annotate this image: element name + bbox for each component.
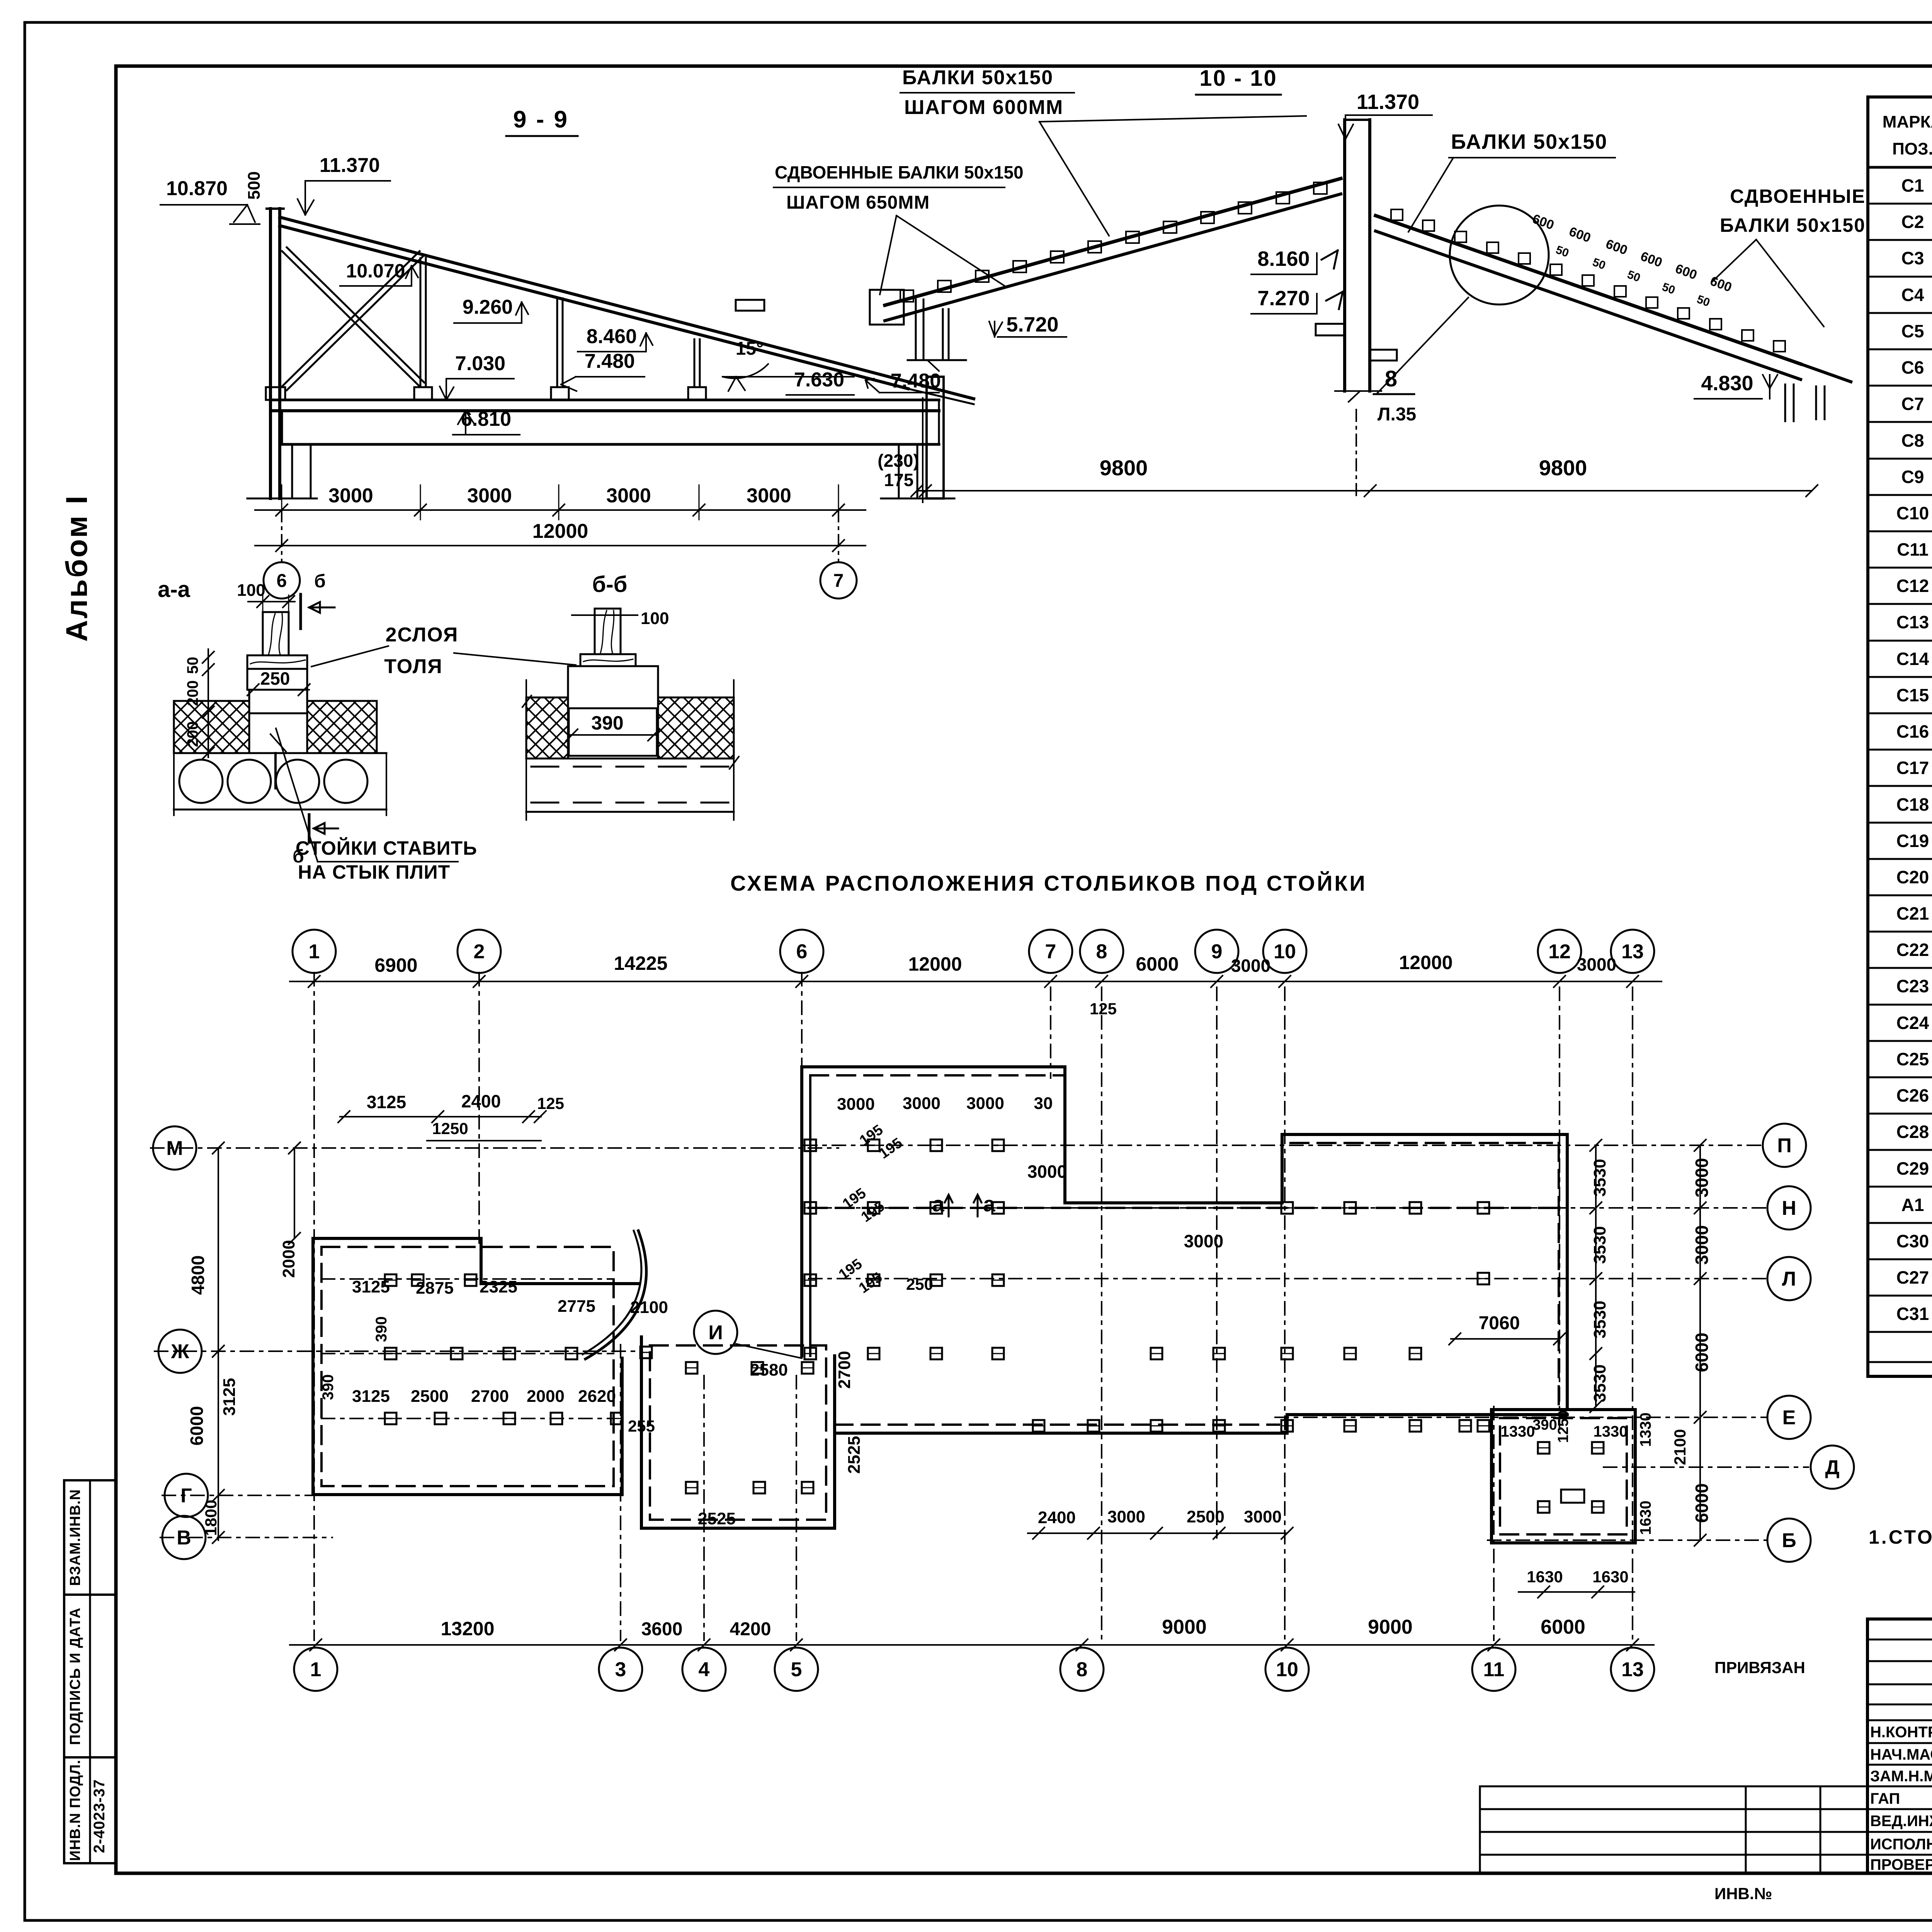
svg-text:12000: 12000 bbox=[1399, 952, 1452, 973]
svg-text:СХЕМА РАСПОЛОЖЕНИЯ СТОЛБИКОВ: СХЕМА РАСПОЛОЖЕНИЯ СТОЛБИКОВ ПОД СТОЙКИ bbox=[730, 871, 1367, 895]
svg-text:3600: 3600 bbox=[641, 1619, 683, 1639]
svg-text:3530: 3530 bbox=[1590, 1159, 1609, 1197]
svg-text:100: 100 bbox=[237, 581, 265, 600]
svg-text:1800: 1800 bbox=[202, 1500, 220, 1536]
svg-text:С21: С21 bbox=[1896, 903, 1929, 923]
svg-text:11: 11 bbox=[1483, 1658, 1505, 1681]
svg-text:3000: 3000 bbox=[467, 485, 512, 507]
svg-text:6000: 6000 bbox=[1136, 953, 1179, 975]
svg-text:3: 3 bbox=[615, 1658, 626, 1681]
svg-text:100: 100 bbox=[641, 609, 669, 628]
svg-text:Н.КОНТР.: Н.КОНТР. bbox=[1870, 1724, 1932, 1741]
svg-text:С6: С6 bbox=[1901, 357, 1924, 378]
svg-text:П: П bbox=[1777, 1134, 1791, 1157]
svg-text:9.260: 9.260 bbox=[463, 296, 513, 318]
svg-text:2400: 2400 bbox=[461, 1091, 501, 1111]
svg-text:11.370: 11.370 bbox=[1357, 90, 1419, 114]
svg-text:СДВОЕННЫЕ: СДВОЕННЫЕ bbox=[1730, 185, 1866, 207]
svg-text:С12: С12 bbox=[1896, 576, 1929, 596]
svg-text:255: 255 bbox=[628, 1417, 655, 1435]
svg-text:Г: Г bbox=[180, 1485, 192, 1507]
svg-text:10.070: 10.070 bbox=[346, 260, 405, 282]
svg-text:С19: С19 bbox=[1896, 831, 1929, 851]
svg-text:ПРИВЯЗАН: ПРИВЯЗАН bbox=[1714, 1658, 1805, 1677]
svg-text:С22: С22 bbox=[1896, 940, 1929, 960]
svg-text:ВЗАМ.ИНВ.N: ВЗАМ.ИНВ.N bbox=[67, 1489, 83, 1586]
svg-text:С14: С14 bbox=[1896, 649, 1929, 669]
svg-text:БАЛКИ 50х150: БАЛКИ 50х150 bbox=[1720, 214, 1866, 236]
svg-text:7: 7 bbox=[1045, 940, 1056, 963]
svg-text:3125: 3125 bbox=[352, 1277, 390, 1296]
svg-text:4800: 4800 bbox=[188, 1255, 208, 1295]
svg-text:2СЛОЯ: 2СЛОЯ bbox=[386, 624, 459, 646]
svg-text:ИНВ.N ПОДЛ.: ИНВ.N ПОДЛ. bbox=[67, 1760, 83, 1861]
svg-text:9000: 9000 bbox=[1368, 1616, 1413, 1638]
svg-text:7.030: 7.030 bbox=[455, 352, 505, 375]
svg-text:9 - 9: 9 - 9 bbox=[513, 106, 569, 133]
svg-text:500: 500 bbox=[245, 171, 264, 199]
svg-text:СДВОЕННЫЕ БАЛКИ 50х150: СДВОЕННЫЕ БАЛКИ 50х150 bbox=[775, 162, 1024, 182]
svg-text:50: 50 bbox=[184, 657, 201, 674]
svg-text:2: 2 bbox=[474, 940, 485, 963]
svg-text:С20: С20 bbox=[1896, 867, 1929, 887]
svg-text:7.630: 7.630 bbox=[794, 369, 844, 391]
svg-text:1250: 1250 bbox=[432, 1119, 468, 1138]
svg-text:8.160: 8.160 bbox=[1257, 247, 1310, 270]
svg-text:3000: 3000 bbox=[903, 1094, 940, 1113]
svg-text:9: 9 bbox=[1211, 940, 1223, 963]
svg-text:2620: 2620 bbox=[578, 1387, 616, 1406]
svg-text:200: 200 bbox=[184, 721, 201, 747]
svg-text:3000: 3000 bbox=[606, 485, 651, 507]
svg-text:10 - 10: 10 - 10 bbox=[1199, 66, 1277, 91]
svg-text:4: 4 bbox=[699, 1658, 710, 1681]
svg-text:б-б: б-б bbox=[592, 572, 628, 597]
svg-text:3000: 3000 bbox=[1107, 1507, 1145, 1526]
svg-text:ИСПОЛН.: ИСПОЛН. bbox=[1870, 1836, 1932, 1853]
svg-text:3000: 3000 bbox=[747, 485, 791, 507]
svg-text:6000: 6000 bbox=[1692, 1333, 1712, 1372]
svg-text:3000: 3000 bbox=[1184, 1231, 1223, 1251]
svg-text:5: 5 bbox=[791, 1658, 802, 1681]
svg-text:С25: С25 bbox=[1896, 1049, 1929, 1069]
svg-text:Л: Л bbox=[1782, 1268, 1796, 1290]
svg-text:2700: 2700 bbox=[835, 1351, 854, 1389]
svg-text:3000: 3000 bbox=[1577, 954, 1616, 975]
svg-text:1: 1 bbox=[309, 940, 320, 963]
svg-text:200: 200 bbox=[184, 680, 201, 706]
svg-text:8: 8 bbox=[1096, 940, 1107, 963]
svg-text:С1: С1 bbox=[1901, 175, 1924, 196]
svg-text:7.480: 7.480 bbox=[891, 370, 941, 392]
svg-text:6900: 6900 bbox=[374, 954, 417, 976]
svg-text:С11: С11 bbox=[1897, 539, 1929, 560]
svg-text:б: б bbox=[314, 571, 326, 592]
svg-text:ПРОВЕР.: ПРОВЕР. bbox=[1870, 1856, 1932, 1873]
svg-text:3000: 3000 bbox=[1244, 1507, 1282, 1526]
svg-text:390: 390 bbox=[591, 712, 623, 734]
svg-text:13200: 13200 bbox=[440, 1618, 494, 1639]
svg-text:125: 125 bbox=[537, 1094, 564, 1112]
svg-text:3000: 3000 bbox=[1231, 956, 1270, 976]
svg-text:ШАГОМ 600ММ: ШАГОМ 600ММ bbox=[904, 96, 1063, 119]
svg-text:3530: 3530 bbox=[1590, 1364, 1609, 1402]
svg-text:175: 175 bbox=[884, 470, 914, 490]
svg-text:1330: 1330 bbox=[1501, 1423, 1535, 1440]
svg-text:6: 6 bbox=[796, 940, 808, 963]
svg-text:Л.35: Л.35 bbox=[1378, 404, 1416, 425]
svg-text:Н: Н bbox=[1782, 1197, 1796, 1219]
svg-text:1630: 1630 bbox=[1592, 1568, 1628, 1586]
svg-text:14225: 14225 bbox=[614, 952, 667, 974]
svg-text:10: 10 bbox=[1274, 940, 1296, 963]
svg-text:2000: 2000 bbox=[279, 1240, 298, 1278]
svg-text:С27: С27 bbox=[1896, 1267, 1929, 1287]
svg-text:2500: 2500 bbox=[411, 1387, 449, 1406]
svg-text:6: 6 bbox=[277, 571, 287, 591]
svg-text:2875: 2875 bbox=[416, 1279, 454, 1298]
svg-text:7.480: 7.480 bbox=[585, 350, 635, 372]
svg-text:9800: 9800 bbox=[1539, 456, 1587, 480]
svg-text:6000: 6000 bbox=[187, 1406, 207, 1446]
svg-text:2100: 2100 bbox=[630, 1298, 668, 1317]
svg-text:125: 125 bbox=[1090, 1000, 1117, 1018]
svg-text:ЗАМ.Н.М: ЗАМ.Н.М bbox=[1870, 1768, 1932, 1785]
svg-text:1330: 1330 bbox=[1594, 1423, 1628, 1440]
svg-text:ИНВ.№: ИНВ.№ bbox=[1714, 1884, 1772, 1903]
svg-text:3000: 3000 bbox=[1027, 1162, 1067, 1182]
svg-text:М: М bbox=[166, 1137, 183, 1160]
svg-text:2-4023-37: 2-4023-37 bbox=[91, 1779, 108, 1853]
svg-text:9800: 9800 bbox=[1100, 456, 1148, 480]
svg-text:БАЛКИ 50х150: БАЛКИ 50х150 bbox=[1451, 130, 1607, 153]
svg-text:С15: С15 bbox=[1896, 685, 1929, 705]
svg-text:15°: 15° bbox=[736, 338, 764, 359]
svg-text:1: 1 bbox=[310, 1658, 321, 1681]
svg-text:6000: 6000 bbox=[1692, 1483, 1712, 1523]
svg-text:3125: 3125 bbox=[367, 1092, 406, 1112]
svg-text:С7: С7 bbox=[1901, 394, 1924, 414]
svg-text:Ж: Ж bbox=[171, 1340, 190, 1363]
svg-text:250: 250 bbox=[906, 1275, 933, 1293]
svg-text:390: 390 bbox=[1532, 1417, 1557, 1433]
svg-text:3125: 3125 bbox=[220, 1378, 239, 1416]
svg-text:7: 7 bbox=[833, 571, 844, 591]
svg-text:а-а: а-а bbox=[158, 577, 190, 602]
svg-text:С23: С23 bbox=[1896, 976, 1929, 996]
svg-text:С29: С29 bbox=[1896, 1158, 1929, 1179]
svg-text:2400: 2400 bbox=[1038, 1508, 1076, 1527]
svg-text:1250: 1250 bbox=[1555, 1410, 1571, 1443]
svg-text:С3: С3 bbox=[1901, 248, 1924, 268]
svg-text:а: а bbox=[932, 1192, 944, 1216]
svg-text:11.370: 11.370 bbox=[320, 154, 380, 177]
svg-text:10.870: 10.870 bbox=[166, 177, 228, 200]
svg-text:С28: С28 bbox=[1896, 1122, 1929, 1142]
svg-text:8: 8 bbox=[1077, 1658, 1088, 1681]
svg-text:6.810: 6.810 bbox=[461, 408, 511, 430]
svg-text:2100: 2100 bbox=[1671, 1429, 1689, 1465]
svg-text:1630: 1630 bbox=[1527, 1568, 1563, 1586]
svg-text:3000: 3000 bbox=[1692, 1225, 1712, 1265]
svg-text:С13: С13 bbox=[1896, 612, 1929, 632]
svg-text:(230): (230) bbox=[878, 451, 919, 471]
svg-text:ВЕД.ИНЖ: ВЕД.ИНЖ bbox=[1870, 1813, 1932, 1830]
svg-text:БАЛКИ 50х150: БАЛКИ 50х150 bbox=[902, 66, 1053, 89]
svg-text:Б: Б bbox=[1782, 1529, 1796, 1552]
svg-text:С26: С26 bbox=[1896, 1085, 1929, 1105]
svg-text:Е: Е bbox=[1782, 1406, 1796, 1429]
svg-text:390: 390 bbox=[373, 1316, 390, 1342]
svg-text:а: а bbox=[983, 1192, 995, 1216]
svg-text:С9: С9 bbox=[1901, 467, 1924, 487]
svg-text:2580: 2580 bbox=[750, 1361, 788, 1379]
svg-text:ТОЛЯ: ТОЛЯ bbox=[384, 655, 442, 678]
svg-text:10: 10 bbox=[1276, 1658, 1298, 1681]
svg-text:3000: 3000 bbox=[328, 485, 373, 507]
svg-text:А1: А1 bbox=[1901, 1195, 1924, 1215]
svg-text:Д: Д bbox=[1825, 1456, 1839, 1479]
svg-text:12: 12 bbox=[1548, 940, 1571, 963]
svg-text:3530: 3530 bbox=[1590, 1226, 1609, 1264]
svg-text:5.720: 5.720 bbox=[1006, 313, 1058, 336]
svg-text:30: 30 bbox=[1034, 1094, 1053, 1113]
svg-text:3000: 3000 bbox=[837, 1095, 875, 1114]
svg-text:390: 390 bbox=[320, 1374, 337, 1400]
svg-text:С4: С4 bbox=[1901, 285, 1924, 305]
svg-text:2700: 2700 bbox=[471, 1387, 509, 1406]
svg-text:ГАП: ГАП bbox=[1870, 1790, 1900, 1807]
svg-text:8.460: 8.460 bbox=[587, 325, 637, 348]
svg-text:С10: С10 bbox=[1896, 503, 1929, 523]
svg-text:1.СТОЛБИКИ ПОД ДЕРЕВЯННЫЕ С: 1.СТОЛБИКИ ПОД ДЕРЕВЯННЫЕ СТОЙКИ СТАВИТЬ… bbox=[1869, 1526, 1932, 1548]
svg-text:С8: С8 bbox=[1901, 430, 1924, 451]
svg-text:12000: 12000 bbox=[908, 953, 962, 975]
svg-text:3530: 3530 bbox=[1590, 1301, 1609, 1338]
svg-text:ПОЗ.: ПОЗ. bbox=[1892, 139, 1932, 158]
svg-text:НАЧ.МАСТ: НАЧ.МАСТ bbox=[1870, 1746, 1932, 1763]
svg-text:С18: С18 bbox=[1896, 794, 1929, 815]
svg-text:2775: 2775 bbox=[558, 1297, 595, 1316]
svg-text:С17: С17 bbox=[1896, 758, 1929, 778]
svg-text:С31: С31 bbox=[1896, 1304, 1929, 1324]
svg-text:4200: 4200 bbox=[730, 1619, 771, 1639]
svg-text:1330: 1330 bbox=[1637, 1413, 1654, 1447]
svg-text:С16: С16 bbox=[1896, 721, 1929, 742]
svg-text:3125: 3125 bbox=[352, 1387, 390, 1406]
svg-text:ШАГОМ 650ММ: ШАГОМ 650ММ bbox=[786, 192, 930, 213]
svg-text:250: 250 bbox=[260, 668, 290, 689]
svg-text:2500: 2500 bbox=[1187, 1507, 1225, 1526]
svg-text:6000: 6000 bbox=[1541, 1616, 1585, 1638]
svg-text:И: И bbox=[708, 1321, 723, 1344]
svg-text:2000: 2000 bbox=[527, 1387, 565, 1406]
svg-text:1630: 1630 bbox=[1637, 1501, 1654, 1535]
svg-text:2525: 2525 bbox=[845, 1436, 864, 1474]
svg-text:13: 13 bbox=[1621, 1658, 1644, 1681]
svg-text:3000: 3000 bbox=[1692, 1158, 1712, 1197]
svg-text:4.830: 4.830 bbox=[1701, 372, 1753, 395]
svg-text:9000: 9000 bbox=[1162, 1616, 1207, 1638]
svg-text:б: б bbox=[293, 846, 304, 867]
svg-text:ПОДПИСЬ И ДАТА: ПОДПИСЬ И ДАТА bbox=[67, 1607, 83, 1745]
svg-text:12000: 12000 bbox=[532, 520, 588, 543]
svg-text:13: 13 bbox=[1621, 940, 1644, 963]
svg-text:2525: 2525 bbox=[698, 1509, 736, 1528]
svg-text:СТОЙКИ СТАВИТЬ: СТОЙКИ СТАВИТЬ bbox=[296, 837, 477, 859]
svg-text:НА СТЫК ПЛИТ: НА СТЫК ПЛИТ bbox=[298, 861, 450, 883]
svg-text:В: В bbox=[177, 1527, 191, 1549]
svg-text:2325: 2325 bbox=[480, 1277, 517, 1296]
svg-text:С30: С30 bbox=[1896, 1231, 1929, 1251]
svg-text:С2: С2 bbox=[1901, 212, 1924, 232]
svg-text:Альбом I: Альбом I bbox=[60, 494, 94, 642]
svg-text:3000: 3000 bbox=[966, 1094, 1004, 1113]
svg-text:С24: С24 bbox=[1896, 1013, 1929, 1033]
svg-text:7.270: 7.270 bbox=[1257, 287, 1310, 310]
svg-text:7060: 7060 bbox=[1479, 1313, 1520, 1333]
svg-text:С5: С5 bbox=[1901, 321, 1924, 341]
svg-text:МАРКА: МАРКА bbox=[1883, 112, 1932, 131]
